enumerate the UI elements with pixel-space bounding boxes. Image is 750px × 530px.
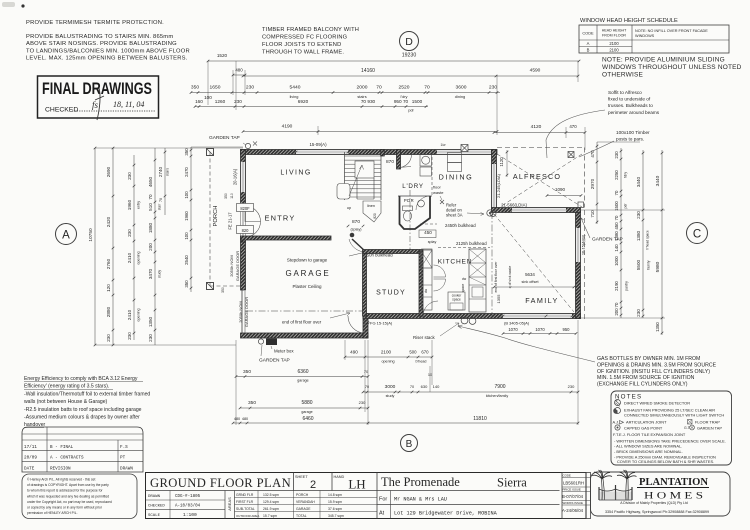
svg-text:walls (not between House & Gar: walls (not between House & Garage) <box>24 399 108 405</box>
svg-text:670: 670 <box>421 350 429 355</box>
svg-text:FROM FLOOR: FROM FLOOR <box>602 34 626 38</box>
svg-text:FLOOR JOISTS TO EXTEND: FLOOR JOISTS TO EXTEND <box>262 42 341 48</box>
garage first floor over dashline <box>246 310 363 312</box>
svg-text:A: A <box>587 41 590 46</box>
dim chain 6920 <box>195 106 428 108</box>
svg-text:SCALE: SCALE <box>148 514 161 518</box>
alfresco outline <box>497 147 584 149</box>
svg-text:FIRST FLR: FIRST FLR <box>236 500 254 504</box>
svg-text:PDR: PDR <box>404 198 414 203</box>
svg-text:B: B <box>406 439 413 450</box>
svg-text:© Henley Arch P/L. All rights: © Henley Arch P/L. All rights reserved -… <box>27 478 95 482</box>
exhaust fan symbol <box>615 408 621 414</box>
svg-text:posts to pars.: posts to pars. <box>616 137 644 142</box>
svg-text:100x100 Timber: 100x100 Timber <box>616 130 650 135</box>
dim chain living/stairs/ldry/dining <box>191 92 500 94</box>
svg-text:q of sink waste: q of sink waste <box>508 266 512 289</box>
svg-text:LEVEL. MAX. 125mm OPENING BETW: LEVEL. MAX. 125mm OPENING BETWEEN BALUST… <box>26 56 188 62</box>
svg-text:garage: garage <box>297 379 308 383</box>
svg-text:COVER TO CEILINGS BELOW BATH: COVER TO CEILINGS BELOW BATH & SHR WASTE… <box>617 459 714 464</box>
garage door opening left <box>241 290 243 334</box>
svg-text:350: 350 <box>221 287 225 293</box>
svg-text:CONNECTED SIMULTANEOUSLY WITH: CONNECTED SIMULTANEOUSLY WITH LIGHT SWIT… <box>624 413 724 418</box>
svg-text:3600: 3600 <box>456 85 467 91</box>
svg-text:permission of HENLEY ARCH P/L.: permission of HENLEY ARCH P/L. <box>27 511 78 515</box>
drawn/checked/scale <box>146 499 226 501</box>
svg-text:TOTAL: TOTAL <box>296 514 307 518</box>
svg-text:or copied by any means or in a: or copied by any means or in any form wi… <box>27 506 103 510</box>
svg-text:FE 21-17: FE 21-17 <box>228 212 233 230</box>
svg-text:2050h NOM: 2050h NOM <box>238 301 243 323</box>
svg-text:100: 100 <box>184 191 189 199</box>
svg-text:100: 100 <box>204 95 212 100</box>
svg-text:AREAS: AREAS <box>227 497 232 511</box>
svg-text:GARAGE: GARAGE <box>296 507 311 511</box>
svg-text:h'head space: h'head space <box>646 230 650 250</box>
svg-text:2470: 2470 <box>184 167 189 177</box>
door arc rear garage <box>348 316 365 333</box>
svg-text:14160: 14160 <box>361 68 375 74</box>
svg-text:sheet 3A: sheet 3A <box>446 213 463 218</box>
svg-text:15.7 sqm: 15.7 sqm <box>263 514 277 518</box>
svg-text:470: 470 <box>590 150 595 158</box>
svg-text:70: 70 <box>614 215 619 220</box>
stairs <box>344 152 346 200</box>
svg-text:KITCHEN: KITCHEN <box>438 259 473 266</box>
svg-text:10750: 10750 <box>88 228 94 242</box>
svg-text:230: 230 <box>636 211 641 219</box>
svg-text:of drawings is COPYRIGHT. Apar: of drawings is COPYRIGHT. Apart from use… <box>27 483 109 487</box>
bottom chain opening/bhead <box>345 356 432 358</box>
svg-text:Energy Efficiency to comply wi: Energy Efficiency to comply with BCA 3.1… <box>24 376 138 382</box>
kitchen bottom bench <box>448 292 465 310</box>
fence <box>599 485 632 500</box>
svg-text:630: 630 <box>421 384 428 389</box>
svg-text:230: 230 <box>127 229 132 237</box>
svg-text:470: 470 <box>569 124 577 129</box>
svg-text:GRND FLR: GRND FLR <box>236 493 254 497</box>
svg-text:350: 350 <box>243 369 251 375</box>
svg-text:350: 350 <box>248 400 256 406</box>
svg-text:2100: 2100 <box>609 47 619 52</box>
svg-text:floor: floor <box>433 185 441 190</box>
svg-text:GARAGE DOOR: GARAGE DOOR <box>235 251 240 281</box>
svg-text:CHECKED: CHECKED <box>45 107 78 114</box>
svg-text:1520: 1520 <box>217 53 228 58</box>
svg-text:70: 70 <box>424 85 430 91</box>
svg-text:study: study <box>158 270 162 278</box>
svg-text:A Division of Mainly Propertie: A Division of Mainly Properties (QLD) Pt… <box>620 501 688 505</box>
family dashes <box>491 212 493 316</box>
svg-text:950: 950 <box>563 327 571 332</box>
exterior wall top (living/hall/dining) <box>241 150 498 155</box>
hall wall + door 870 <box>397 150 401 170</box>
svg-text:1070: 1070 <box>535 327 545 332</box>
svg-text:4190: 4190 <box>282 124 293 130</box>
svg-text:PLANTATION: PLANTATION <box>639 477 709 488</box>
svg-text:2970: 2970 <box>590 178 595 189</box>
svg-text:230: 230 <box>614 151 619 159</box>
svg-text:20-16(A): 20-16(A) <box>233 168 238 185</box>
areas table <box>235 497 378 499</box>
svg-text:70: 70 <box>614 302 619 307</box>
svg-text:2250: 2250 <box>614 170 619 180</box>
exterior wall right (family) <box>576 210 581 319</box>
svg-text:Meter box: Meter box <box>274 349 294 354</box>
svg-text:132.5 sqm: 132.5 sqm <box>263 493 279 497</box>
hws circle <box>487 210 493 216</box>
svg-text:end of first floor over: end of first floor over <box>494 261 498 293</box>
svg-text:710: 710 <box>590 210 595 218</box>
stair rail <box>337 184 350 200</box>
svg-text:A-10/03/04: A-10/03/04 <box>175 504 201 509</box>
dim chain family windows 1070/1070/950 <box>503 333 576 335</box>
svg-text:OUTDOOR AREA: OUTDOOR AREA <box>236 514 259 518</box>
svg-text:PRICE ISSUE: PRICE ISSUE <box>563 488 581 492</box>
svg-text:230: 230 <box>106 334 111 342</box>
svg-text:350: 350 <box>184 148 189 156</box>
svg-text:DRAWN: DRAWN <box>148 495 161 499</box>
svg-text:2125h bulkhead: 2125h bulkhead <box>456 241 487 246</box>
svg-text:stairs: stairs <box>166 168 170 176</box>
svg-text:2000: 2000 <box>357 85 368 91</box>
svg-text:230: 230 <box>568 384 575 389</box>
svg-text:to whom this report is address: to whom this report is addressed for the… <box>27 489 103 493</box>
ldry fixtures <box>431 152 433 196</box>
svg-text:-Assumed medium colours & drap: -Assumed medium colours & drapes by owne… <box>24 415 140 421</box>
svg-text:GARDEN TAP: GARDEN TAP <box>697 426 722 431</box>
svg-text:15-09(A): 15-09(A) <box>309 142 327 147</box>
svg-text:opening: opening <box>381 360 394 364</box>
svg-text:ABOVE STAIR NOSINGS. PROVIDE B: ABOVE STAIR NOSINGS. PROVIDE BALUSTRADIN… <box>26 41 177 47</box>
svg-text:GARDEN TAP: GARDEN TAP <box>592 237 623 243</box>
svg-text:230: 230 <box>127 332 132 340</box>
window in family front wall <box>503 314 572 319</box>
svg-text:2190: 2190 <box>614 281 619 291</box>
svg-text:2760: 2760 <box>106 258 111 269</box>
svg-text:820: 820 <box>242 228 250 233</box>
svg-text:1350: 1350 <box>655 322 660 332</box>
svg-text:200: 200 <box>148 243 153 251</box>
svg-text:2520: 2520 <box>399 85 410 91</box>
svg-text:opening: opening <box>137 251 141 264</box>
svg-text:1380: 1380 <box>636 230 641 241</box>
smoke detector symbol <box>615 400 621 406</box>
svg-text:COMPRESSED FC FLOORING: COMPRESSED FC FLOORING <box>262 35 347 41</box>
grid marker B <box>401 435 418 452</box>
svg-text:b'head: b'head <box>416 360 427 364</box>
right chain 2 <box>642 150 644 318</box>
kitchen sink bench (vertical) <box>422 249 433 310</box>
svg-text:Lot 129 Bridgewater Drive, ROB: Lot 129 Bridgewater Drive, ROBINA <box>394 511 498 517</box>
svg-text:350: 350 <box>191 85 199 91</box>
svg-text:129.4 sqm: 129.4 sqm <box>263 500 279 504</box>
svg-text:870: 870 <box>352 219 360 225</box>
exterior wall garage front <box>241 333 369 338</box>
svg-text:480: 480 <box>234 417 240 421</box>
svg-text:NOTES: NOTES <box>615 394 642 401</box>
svg-text:Efficiency' (energy rating of: Efficiency' (energy rating of 3.5 stars)… <box>24 384 109 390</box>
svg-text:GARDEN TAP: GARDEN TAP <box>259 358 290 364</box>
basin <box>418 200 425 207</box>
svg-text:3470: 3470 <box>148 268 153 279</box>
left dim chain 4 <box>154 148 156 345</box>
svg-text:fs: fs <box>92 100 99 110</box>
svg-text:OF IGNITION. (INSITU FILL CYLI: OF IGNITION. (INSITU FILL CYLINDERS ONLY… <box>597 369 710 375</box>
svg-text:CAPPED GAS POINT: CAPPED GAS POINT <box>624 426 663 431</box>
svg-text:linen: linen <box>367 204 375 208</box>
svg-text:garage: garage <box>301 410 312 414</box>
svg-text:space: space <box>461 283 465 292</box>
svg-text:L'DRY: L'DRY <box>402 183 424 190</box>
svg-text:820F: 820F <box>240 206 250 211</box>
svg-text:200: 200 <box>614 308 619 316</box>
svg-text:F.S: F.S <box>120 445 128 450</box>
svg-text:sink offset: sink offset <box>521 280 539 284</box>
svg-text:NOTE: PROVIDE ALUMINIUM SLIDIN: NOTE: PROVIDE ALUMINIUM SLIDING <box>602 57 725 64</box>
svg-text:FLOOR TRAP: FLOOR TRAP <box>695 420 720 425</box>
svg-text:FG 15-15(A): FG 15-15(A) <box>370 321 393 326</box>
garden tap symbol alfresco <box>490 211 496 217</box>
svg-text:DRAWN: DRAWN <box>120 466 133 471</box>
svg-text:2740: 2740 <box>158 166 163 177</box>
svg-text:TO LANDINGS/BALCONIES MIN. 100: TO LANDINGS/BALCONIES MIN. 1000mm ABOVE … <box>26 48 190 54</box>
svg-text:OTHERWISE: OTHERWISE <box>602 72 644 79</box>
svg-text:fixed to underside of: fixed to underside of <box>608 97 651 102</box>
pdr room <box>400 196 431 229</box>
study door <box>362 251 364 253</box>
svg-text:F.T.E.J. FLOOR TILE EXPANSION: F.T.E.J. FLOOR TILE EXPANSION JOINT <box>613 432 686 437</box>
svg-text:dining: dining <box>455 94 465 99</box>
svg-text:NOTE: NO INFILL OVER FRONT FAC: NOTE: NO INFILL OVER FRONT FACADE <box>635 29 708 33</box>
svg-text:450: 450 <box>424 230 432 235</box>
svg-text:15.9 sqm: 15.9 sqm <box>328 500 342 504</box>
svg-text:B - FINAL: B - FINAL <box>50 445 74 450</box>
svg-text:261.9 sqm: 261.9 sqm <box>263 507 279 511</box>
svg-text:B: B <box>587 47 590 52</box>
stamp: FINAL DRAWINGS <box>38 76 159 118</box>
alfresco diagonals <box>497 154 582 207</box>
svg-text:A-24/06/04: A-24/06/04 <box>562 508 584 513</box>
svg-text:A: A <box>62 230 70 242</box>
svg-text:dw: dw <box>462 277 467 281</box>
svg-text:120: 120 <box>106 284 111 292</box>
svg-text:perimeter around beams: perimeter around beams <box>608 110 660 115</box>
svg-text:230: 230 <box>148 334 153 342</box>
svg-text:230: 230 <box>246 85 254 91</box>
svg-text:5500: 5500 <box>636 259 641 270</box>
door label 820 <box>237 226 254 234</box>
copyright box <box>22 474 137 519</box>
svg-text:-R2.5 insulation batts to roof: -R2.5 insulation batts to roof space inc… <box>24 407 142 413</box>
svg-text:1350: 1350 <box>148 316 153 327</box>
svg-text:dw: dw <box>424 288 428 293</box>
svg-text:DIRECT WIRED SMOKE DETECTOR: DIRECT WIRED SMOKE DETECTOR <box>624 401 690 406</box>
svg-text:4590: 4590 <box>530 68 541 74</box>
svg-text:230: 230 <box>127 172 132 180</box>
palm tree logo <box>592 470 637 500</box>
svg-text:5880: 5880 <box>301 400 312 406</box>
svg-text:GARAGE: GARAGE <box>285 269 330 278</box>
svg-text:5440: 5440 <box>290 85 301 91</box>
door label 820F <box>237 204 254 212</box>
svg-text:4120: 4120 <box>531 124 542 130</box>
svg-text:1650: 1650 <box>210 85 221 91</box>
svg-text:A.J.: A.J. <box>613 420 620 425</box>
bottom chain study/kitchen <box>363 391 578 393</box>
svg-text:1000: 1000 <box>614 256 619 266</box>
svg-text:4650: 4650 <box>148 176 153 187</box>
study walls <box>363 250 367 316</box>
plantation homes logo box <box>591 472 731 516</box>
toilet <box>403 206 413 211</box>
riser stack <box>461 317 468 324</box>
svg-text:CODE: CODE <box>582 31 594 36</box>
svg-text:3440: 3440 <box>655 175 661 186</box>
svg-text:CODE: CODE <box>563 474 571 478</box>
svg-text:20/09: 20/09 <box>24 456 37 461</box>
svg-text:1090: 1090 <box>555 187 566 192</box>
floor trap <box>688 420 693 425</box>
svg-text:21-245(LDIA): 21-245(LDIA) <box>496 173 501 198</box>
connector right <box>580 209 665 211</box>
svg-text:70: 70 <box>410 385 414 389</box>
svg-text:3354 Pacific Highway, Springwo: 3354 Pacific Highway, Springwood Ph:3290… <box>605 510 709 514</box>
svg-text:pantry: pantry <box>625 281 629 291</box>
svg-text:70: 70 <box>614 190 619 195</box>
meter box <box>266 339 277 346</box>
step wall front <box>363 314 368 339</box>
bottom chain totals <box>233 422 578 424</box>
svg-text:CHECKED: CHECKED <box>148 505 165 509</box>
svg-text:At: At <box>379 511 385 517</box>
svg-text:2410: 2410 <box>127 252 132 263</box>
door arc study front <box>423 301 438 316</box>
svg-text:2690: 2690 <box>106 166 111 177</box>
svg-text:splay: splay <box>428 240 437 244</box>
exterior wall left (living/entry) <box>241 150 246 243</box>
svg-text:MIN. 1.5M FROM SOURCE OF IGNIT: MIN. 1.5M FROM SOURCE OF IGNITION <box>597 375 695 381</box>
svg-text:350: 350 <box>184 280 189 288</box>
svg-text:HAND: HAND <box>334 475 345 479</box>
svg-text:Sierra: Sierra <box>497 476 527 490</box>
svg-text:450: 450 <box>614 222 619 230</box>
svg-text:100: 100 <box>184 232 189 240</box>
svg-text:870: 870 <box>386 159 394 165</box>
svg-text:CDG-#-1805: CDG-#-1805 <box>175 495 201 499</box>
svg-text:18, 11, 04: 18, 11, 04 <box>113 100 144 109</box>
entry door arcs FE 21-17 <box>245 206 261 222</box>
svg-text:490: 490 <box>350 350 358 355</box>
code boxes <box>562 473 591 519</box>
svg-text:350: 350 <box>224 193 228 199</box>
pdr door <box>416 196 430 210</box>
svg-text:6460: 6460 <box>302 416 313 422</box>
svg-text:under the Copyright Act, no pa: under the Copyright Act, no part may be … <box>27 500 112 504</box>
svg-text:WINDOWS THROUGHOUT UNLESS NOTE: WINDOWS THROUGHOUT UNLESS NOTED <box>602 64 742 71</box>
exterior wall dining right <box>492 150 497 213</box>
scan smudge top-left <box>2 2 15 7</box>
svg-text:70: 70 <box>159 198 163 202</box>
svg-text:70 930: 70 930 <box>361 99 376 104</box>
svg-text:480: 480 <box>235 68 243 73</box>
bottom chain 6360 <box>236 376 368 378</box>
right chain 3 <box>661 150 663 335</box>
svg-text:ARTICULATION JOINT: ARTICULATION JOINT <box>626 420 667 425</box>
svg-text:LIVING: LIVING <box>280 170 311 177</box>
svg-text:Stepdown to garage: Stepdown to garage <box>287 258 328 263</box>
svg-text:820: 820 <box>373 213 377 219</box>
grid marker C <box>687 223 708 244</box>
svg-text:Mr NGAN & Mrs LAU: Mr NGAN & Mrs LAU <box>394 497 447 503</box>
capped gas point <box>615 425 620 430</box>
left dim chain 3 <box>133 155 135 340</box>
svg-text:end of first floor over: end of first floor over <box>282 320 322 325</box>
entry-garage wall <box>241 236 332 240</box>
svg-text:GAS BOTTLES BY OWNER MIN. 1M F: GAS BOTTLES BY OWNER MIN. 1M FROM <box>597 356 700 362</box>
svg-text:21-566(LDIA): 21-566(LDIA) <box>501 203 527 208</box>
svg-text:OPENINGS & DRAINS MIN. 3.5M FR: OPENINGS & DRAINS MIN. 3.5M FROM SOURCE <box>597 362 717 368</box>
porch outline dashed <box>209 152 211 286</box>
svg-text:5980: 5980 <box>655 261 661 272</box>
svg-text:6920: 6920 <box>298 99 309 104</box>
svg-text:family: family <box>647 260 651 269</box>
svg-text:LH: LH <box>348 477 365 492</box>
right chain alfresco <box>596 142 598 224</box>
svg-text:230: 230 <box>359 400 366 405</box>
svg-text:3440: 3440 <box>636 176 641 187</box>
svg-text:1120: 1120 <box>499 157 504 167</box>
svg-text:2880: 2880 <box>106 306 111 317</box>
svg-text:1/w: 1/w <box>441 143 447 147</box>
svg-text:2450h bulkhead: 2450h bulkhead <box>445 223 476 228</box>
svg-text:PT: PT <box>120 456 126 461</box>
garden tap lower left <box>258 339 263 344</box>
svg-text:(EXCHANGE FILL CYLINDERS ONLY): (EXCHANGE FILL CYLINDERS ONLY) <box>597 382 688 388</box>
svg-text:GARAGE DOOR: GARAGE DOOR <box>244 297 249 327</box>
svg-text:PROVIDE BALUSTRADING TO STAIRS: PROVIDE BALUSTRADING TO STAIRS MIN. 865m… <box>26 34 173 40</box>
svg-text:SUB-TOTAL: SUB-TOTAL <box>236 507 255 511</box>
svg-text:(splay): (splay) <box>350 228 361 232</box>
entry door opening <box>241 203 246 239</box>
svg-text:70: 70 <box>148 194 153 200</box>
svg-text:DATE: DATE <box>24 466 35 471</box>
svg-text:19230: 19230 <box>402 53 417 59</box>
svg-text:WINDOW HEAD HEIGHT SCHEDULE: WINDOW HEAD HEIGHT SCHEDULE <box>580 18 678 24</box>
svg-text:2050h NOM: 2050h NOM <box>229 255 234 277</box>
svg-text:1260: 1260 <box>215 99 226 104</box>
svg-text:2: 2 <box>310 479 316 491</box>
svg-text:1500: 1500 <box>614 201 619 211</box>
svg-text:GROUND FLOOR PLAN: GROUND FLOOR PLAN <box>150 476 291 490</box>
svg-text:140: 140 <box>433 384 440 389</box>
left dim chain 5 <box>164 148 166 215</box>
svg-text:which it was requested and any: which it was requested and any fee deali… <box>27 494 109 498</box>
svg-text:230: 230 <box>234 99 242 104</box>
window 20-16(A) in left wall <box>241 162 246 192</box>
svg-text:345.7 sqm: 345.7 sqm <box>328 514 344 518</box>
svg-text:HEAD HEIGHT: HEAD HEIGHT <box>602 29 627 33</box>
svg-text:3000: 3000 <box>385 384 396 390</box>
svg-text:DINING: DINING <box>439 173 474 182</box>
svg-text:The Promenade: The Promenade <box>381 475 460 489</box>
svg-text:entry: entry <box>137 201 141 209</box>
svg-text:opening: opening <box>137 308 141 321</box>
svg-text:Soffit to Alfresco: Soffit to Alfresco <box>608 90 642 95</box>
svg-text:2100: 2100 <box>609 41 619 46</box>
svg-text:TIMBER FRAMED BALCONY WITH: TIMBER FRAMED BALCONY WITH <box>262 27 359 33</box>
svg-text:37.6 sqm: 37.6 sqm <box>328 507 342 511</box>
